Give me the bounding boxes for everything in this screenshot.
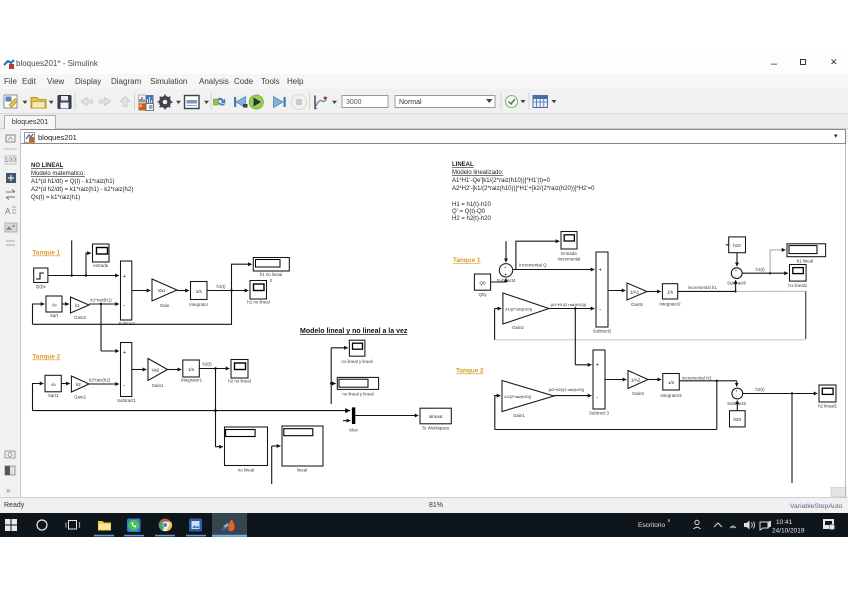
svg-text:Tanque 2: Tanque 2 — [456, 368, 484, 375]
svg-text:Q' = Q(t)-Q0: Q' = Q(t)-Q0 — [452, 209, 486, 215]
svg-text:Tanque 1: Tanque 1 — [33, 250, 61, 257]
svg-text:Integrator2: Integrator2 — [659, 302, 681, 307]
svg-text:A2*(d h2/dt) = k1*raiz(h1) - k: A2*(d h2/dt) = k1*raiz(h1) - k2*raiz(h2) — [31, 187, 133, 193]
svg-text:A1*H1'-Qe'[k1/(2*raiz(h10))]*H: A1*H1'-Qe'[k1/(2*raiz(h10))]*H1'(t)=0 — [452, 178, 551, 184]
svg-text:1/s: 1/s — [196, 289, 203, 294]
svg-text:Integrator3: Integrator3 — [660, 393, 682, 398]
svg-text:1/s: 1/s — [188, 367, 195, 372]
svg-text:-: - — [596, 395, 598, 401]
svg-text:NO LINEAL: NO LINEAL — [31, 163, 64, 169]
svg-text:To Workspace: To Workspace — [422, 426, 450, 431]
svg-text:Q(t)s: Q(t)s — [36, 284, 47, 289]
svg-text:k1*raiz(h1): k1*raiz(h1) — [91, 298, 113, 303]
svg-text:»: » — [6, 486, 11, 495]
svg-text:h2 no lineal: h2 no lineal — [228, 379, 250, 384]
svg-text:Subtract6: Subtract6 — [727, 281, 746, 286]
svg-text:1/A1: 1/A1 — [630, 290, 640, 295]
svg-text:-: - — [123, 383, 125, 389]
svg-text:Gain2: Gain2 — [512, 325, 524, 330]
svg-text:-: - — [599, 307, 601, 313]
svg-text:incremental h1: incremental h1 — [688, 285, 717, 290]
svg-text:no lineal y lineal: no lineal y lineal — [342, 392, 373, 397]
svg-text:Va2: Va2 — [152, 368, 160, 373]
svg-text:Mux: Mux — [349, 428, 358, 433]
svg-text:h2(t): h2(t) — [203, 362, 213, 367]
svg-text:Sqrt: Sqrt — [50, 313, 59, 318]
svg-text:k2*raiz(h2): k2*raiz(h2) — [89, 378, 111, 383]
svg-text:h2(t): h2(t) — [756, 387, 766, 392]
svg-text:+: + — [596, 363, 599, 369]
svg-text:√u: √u — [51, 382, 56, 387]
svg-text:k2: k2 — [76, 382, 81, 387]
svg-text:no lineal y lineal: no lineal y lineal — [341, 359, 372, 364]
svg-text:A2*H2'-[k1/(2*raiz(h10))]*H1'+: A2*H2'-[k1/(2*raiz(h10))]*H1'+[k2/(2*rai… — [452, 186, 595, 192]
svg-text:1/A2: 1/A2 — [631, 378, 641, 383]
svg-text:entrada: entrada — [93, 263, 108, 268]
svg-text:Modelo matematico:: Modelo matematico: — [31, 171, 85, 177]
svg-text:Qs(t) = k1*raiz(h1): Qs(t) = k1*raiz(h1) — [31, 195, 80, 201]
svg-text:A: A — [5, 207, 11, 216]
svg-text:Subtract1: Subtract1 — [117, 398, 136, 403]
svg-text:k2/(2*raiz(h20)): k2/(2*raiz(h20)) — [505, 394, 533, 399]
svg-text:Incremental Q: Incremental Q — [519, 263, 547, 268]
svg-text:+: + — [123, 274, 126, 280]
svg-text:Gain1: Gain1 — [513, 413, 525, 418]
svg-text:Tanque 2: Tanque 2 — [33, 354, 61, 361]
svg-text:Entrada: Entrada — [561, 251, 577, 256]
svg-text:h1 no lineal: h1 no lineal — [260, 272, 282, 277]
svg-text:2: 2 — [270, 278, 273, 283]
svg-text:simout: simout — [429, 414, 443, 419]
svg-text:Modelo lineal y no lineal a la: Modelo lineal y no lineal a la vez — [300, 328, 408, 335]
svg-text:24/10/2019: 24/10/2019 — [772, 528, 805, 535]
svg-text:Subtract: Subtract — [118, 321, 135, 326]
svg-text:Subtract2: Subtract2 — [593, 329, 612, 334]
svg-text:Q0y: Q0y — [478, 292, 487, 297]
svg-text:k1/(2*raiz(h10)): k1/(2*raiz(h10)) — [506, 307, 534, 312]
svg-text:h20: h20 — [734, 417, 742, 422]
svg-text:Gain5: Gain5 — [631, 302, 643, 307]
svg-text:-(k2*H2)/(2 raiz(h20)): -(k2*H2)/(2 raiz(h20)) — [548, 387, 585, 392]
svg-text:+: + — [504, 265, 507, 270]
svg-text:∧: ∧ — [667, 518, 671, 524]
svg-text:Subtract 3: Subtract 3 — [589, 411, 610, 416]
svg-text:Gain2: Gain2 — [74, 395, 86, 400]
svg-text:lineal: lineal — [297, 468, 307, 473]
svg-text:h10: h10 — [733, 243, 741, 248]
svg-text:k1: k1 — [75, 303, 80, 308]
svg-text:LINEAL: LINEAL — [452, 162, 474, 168]
svg-text:h1 lineal1: h1 lineal1 — [788, 283, 807, 288]
svg-text:-: - — [123, 303, 125, 309]
svg-text:Integrator1: Integrator1 — [181, 378, 203, 383]
svg-text:√u: √u — [52, 303, 57, 308]
svg-text:100: 100 — [5, 157, 16, 164]
svg-text:+: + — [599, 268, 602, 274]
svg-text:1/s: 1/s — [667, 290, 674, 295]
svg-text:H1 = h1(t)-h10: H1 = h1(t)-h10 — [452, 202, 492, 208]
svg-text:+: + — [123, 350, 126, 356]
svg-text:-(k1*H1/(2 raiz(h10))): -(k1*H1/(2 raiz(h10))) — [550, 302, 587, 307]
svg-text:no lineal: no lineal — [238, 468, 254, 473]
svg-text:h1 no lineal: h1 no lineal — [247, 300, 269, 305]
svg-text:Gain: Gain — [160, 303, 170, 308]
svg-text:incremental: incremental — [558, 257, 581, 262]
svg-text:h1 lineal: h1 lineal — [797, 259, 813, 264]
svg-text:Gain3: Gain3 — [74, 315, 86, 320]
svg-text:Integrator: Integrator — [189, 302, 208, 307]
svg-text:incremental H2: incremental H2 — [682, 376, 712, 381]
svg-text:h1(t): h1(t) — [217, 284, 227, 289]
svg-text:Sqrt1: Sqrt1 — [48, 393, 59, 398]
svg-text:h2 lineal1: h2 lineal1 — [818, 404, 837, 409]
svg-text:Normal: Normal — [399, 99, 422, 106]
svg-text:Modelo linealizado:: Modelo linealizado: — [452, 170, 504, 176]
svg-text:Gain1: Gain1 — [152, 383, 164, 388]
svg-text:Gain4: Gain4 — [632, 391, 644, 396]
svg-text:Tanque 1: Tanque 1 — [453, 257, 481, 264]
svg-text:Q0: Q0 — [479, 281, 486, 286]
svg-text:Va1: Va1 — [158, 288, 166, 293]
svg-text:H2 = h2(t)-h20: H2 = h2(t)-h20 — [452, 216, 492, 222]
svg-text:3000: 3000 — [346, 99, 362, 106]
svg-text:10:41: 10:41 — [776, 519, 793, 526]
svg-text:Escritorio: Escritorio — [638, 522, 665, 529]
svg-text:1/s: 1/s — [668, 380, 675, 385]
svg-text:A1*(d h1/dt) = Q(t) - k1*raiz(: A1*(d h1/dt) = Q(t) - k1*raiz(h1) — [31, 179, 115, 185]
svg-text:h1(t): h1(t) — [756, 267, 766, 272]
